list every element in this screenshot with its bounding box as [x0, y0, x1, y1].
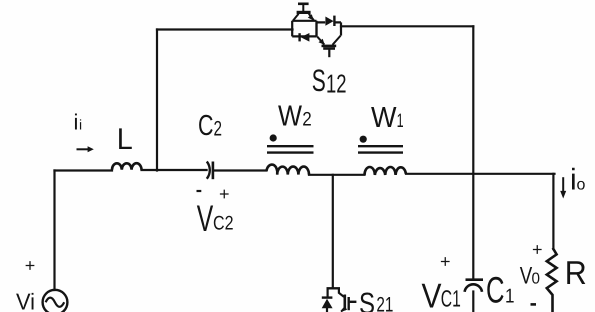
svg-text:2: 2 — [214, 117, 223, 140]
svg-text:W: W — [371, 102, 397, 134]
svg-text:+: + — [219, 184, 230, 204]
svg-text:S: S — [312, 63, 326, 98]
svg-text:V: V — [422, 278, 442, 312]
svg-text:+: + — [532, 240, 543, 260]
svg-text:V: V — [197, 198, 214, 239]
svg-text:o: o — [577, 177, 586, 194]
svg-text:S: S — [359, 288, 375, 312]
svg-text:Vi: Vi — [16, 289, 35, 312]
svg-text:V: V — [520, 262, 533, 289]
svg-text:C: C — [486, 270, 505, 311]
svg-text:i: i — [74, 110, 79, 135]
svg-text:+: + — [25, 256, 36, 276]
svg-text:i: i — [79, 117, 82, 133]
svg-text:C1: C1 — [441, 286, 461, 312]
svg-text:C2: C2 — [213, 212, 234, 234]
svg-text:21: 21 — [376, 294, 393, 312]
svg-text:1: 1 — [505, 286, 515, 308]
svg-text:L: L — [117, 123, 133, 156]
svg-text:R: R — [565, 254, 587, 291]
svg-text:2: 2 — [302, 109, 312, 131]
svg-text:C: C — [198, 110, 214, 142]
svg-text:0: 0 — [532, 270, 541, 287]
svg-text:+: + — [440, 252, 451, 272]
svg-text:12: 12 — [326, 69, 347, 99]
svg-text:W: W — [278, 101, 303, 133]
svg-text:1: 1 — [397, 110, 404, 132]
